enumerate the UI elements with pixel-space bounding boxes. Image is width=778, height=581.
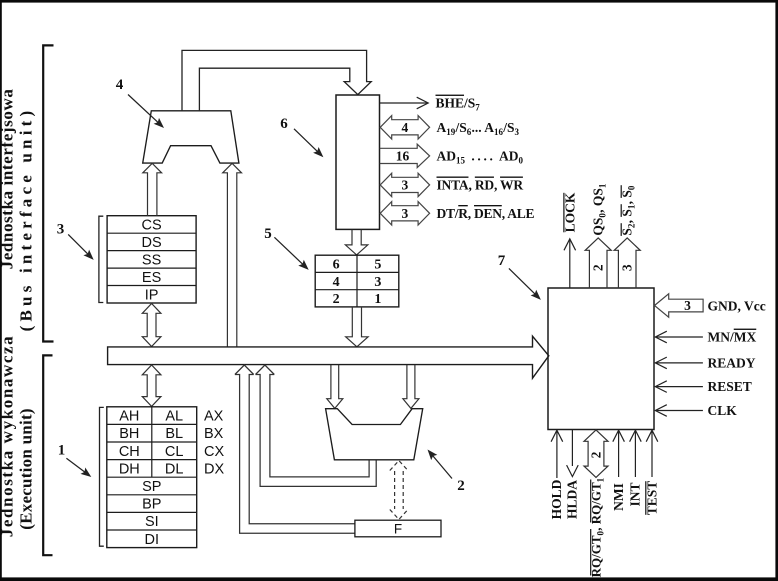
svg-text:IP: IP <box>145 287 159 303</box>
svg-text:INT: INT <box>628 482 643 506</box>
leader arrow for label 5 <box>274 237 304 266</box>
svg-text:BP: BP <box>142 497 161 513</box>
svg-text:6: 6 <box>280 116 288 132</box>
svg-text:NMI: NMI <box>611 483 626 511</box>
svg-text:4: 4 <box>333 275 340 290</box>
svg-text:HLDA: HLDA <box>565 480 580 519</box>
svg-text:CL: CL <box>165 444 184 460</box>
svg-text:6: 6 <box>333 258 340 273</box>
svg-text:CX: CX <box>204 444 224 460</box>
svg-text:SP: SP <box>142 479 161 495</box>
svg-text:DH: DH <box>119 461 140 477</box>
leader arrow for label 6 <box>294 129 319 153</box>
svg-text:Jednostka interfejsowa: Jednostka interfejsowa <box>0 89 17 270</box>
bracket bus-interface-unit section <box>43 45 53 341</box>
bracket register file <box>100 407 104 546</box>
instruction queue table <box>315 255 399 307</box>
svg-text:2: 2 <box>457 478 465 494</box>
signal INT line with arrow into block <box>634 432 636 478</box>
bus wire queue to main bus (hollow arrow down) <box>346 307 368 347</box>
leader arrow for label 1 <box>66 458 86 473</box>
svg-text:16: 16 <box>396 149 410 164</box>
svg-text:READY: READY <box>708 356 756 371</box>
signal BHE/S7 line with arrow <box>380 102 427 104</box>
svg-text:5: 5 <box>264 226 272 242</box>
svg-text:DI: DI <box>145 532 160 548</box>
svg-text:RESET: RESET <box>708 379 752 394</box>
signal NMI line with arrow into block <box>618 432 620 478</box>
svg-text:DS: DS <box>142 235 162 251</box>
svg-text:BHE/S7: BHE/S7 <box>436 96 481 113</box>
svg-text:AL: AL <box>165 409 183 425</box>
bus wire main bus to ALU left input (hollow arrow down) <box>327 365 343 409</box>
signal HOLD line with arrow into block <box>556 432 558 479</box>
bus arrow GND Vcc (3 lines, into block) <box>655 294 704 317</box>
signal TEST line with arrow into block <box>651 432 653 478</box>
ALU block 2 (trapezoid) <box>326 409 423 460</box>
svg-text:4: 4 <box>402 120 409 135</box>
bus arrow AD15..AD0 (16 lines, single head) <box>380 144 430 167</box>
bus arrow DT/R DEN ALE (3 lines) <box>380 202 429 225</box>
svg-text:7: 7 <box>498 253 506 269</box>
svg-text:ES: ES <box>142 270 161 286</box>
svg-text:5: 5 <box>374 258 381 273</box>
svg-text:GND, Vcc: GND, Vcc <box>708 298 766 313</box>
bus arrow QS0 QS1 (2 lines up) <box>585 238 611 288</box>
svg-text:2: 2 <box>591 264 606 271</box>
bus wire main bus down to ALU bottom (hollow, elbow) <box>256 365 377 486</box>
svg-text:LOCK: LOCK <box>562 192 577 232</box>
signal HLDA line with arrow out <box>571 430 573 466</box>
svg-text:SI: SI <box>145 514 159 530</box>
svg-text:DX: DX <box>204 461 224 477</box>
leader arrow for label 4 <box>128 95 160 125</box>
svg-text:Jednostka wykonawcza: Jednostka wykonawcza <box>0 335 17 538</box>
svg-text:3: 3 <box>620 264 635 271</box>
svg-text:CLK: CLK <box>708 403 738 418</box>
signal MN/MX line with arrow <box>657 336 703 338</box>
bus arrow INTA RD WR (3 lines) <box>380 173 429 196</box>
svg-text:DL: DL <box>165 461 184 477</box>
svg-text:1: 1 <box>58 443 66 459</box>
bus control logic block 6 <box>336 95 380 229</box>
svg-text:(Execution unit): (Execution unit) <box>17 408 36 530</box>
svg-text:3: 3 <box>374 275 381 290</box>
svg-text:BL: BL <box>165 426 183 442</box>
svg-text:3: 3 <box>402 206 409 221</box>
bus wire main bus down to flags F register (hollow, elbow) <box>235 365 355 533</box>
bus wire main bus to register file (double hollow arrow) <box>142 365 161 406</box>
signal CLK line with arrow <box>657 410 703 412</box>
bus wire main bus to ALU right input (hollow arrow down) <box>403 365 419 409</box>
bus arrow RQ/GT0 RQ/GT1 (2 lines, double) <box>584 430 608 477</box>
svg-text:SS: SS <box>142 252 161 268</box>
dashed bus ALU to flags register (double dashed arrow) <box>394 471 396 509</box>
svg-text:AX: AX <box>204 409 224 425</box>
svg-text:DT/R, DEN, ALE: DT/R, DEN, ALE <box>437 206 535 221</box>
flags register F <box>355 520 441 537</box>
svg-text:CS: CS <box>142 217 162 233</box>
svg-text:AD15 . . . . AD0: AD15 . . . . AD0 <box>437 149 524 166</box>
svg-text:(Bus interface unit): (Bus interface unit) <box>17 107 36 332</box>
adder block 4 (address summer trapezoid) <box>143 111 239 163</box>
control and timing block 7 <box>548 288 654 430</box>
leader arrow for label 7 <box>509 268 537 295</box>
bus wire block6 to queue (hollow arrow down) <box>345 230 367 255</box>
svg-text:1: 1 <box>374 292 381 307</box>
svg-text:AH: AH <box>119 409 139 425</box>
bus arrow S2 S1 S0 (3 lines up) <box>614 238 640 288</box>
signal RESET line with arrow <box>657 386 703 388</box>
bus arrow A19/S6..A16/S3 (4 lines) <box>380 116 429 139</box>
svg-text:4: 4 <box>116 77 124 93</box>
signal LOCK line with arrow <box>569 240 571 289</box>
svg-text:2: 2 <box>333 292 340 307</box>
svg-text:3: 3 <box>402 178 409 193</box>
svg-text:BX: BX <box>204 426 224 442</box>
bracket execution-unit section <box>43 355 52 555</box>
svg-text:INTA, RD, WR: INTA, RD, WR <box>437 178 524 193</box>
svg-text:BH: BH <box>119 426 139 442</box>
bus wire adder right input from internal bus (hollow arrow up, long) <box>223 163 242 347</box>
svg-text:TEST: TEST <box>644 481 659 516</box>
main internal bus (horizontal, arrow into control block) <box>108 336 549 378</box>
bus wire segment-registers to main bus (double hollow arrow) <box>142 304 161 347</box>
svg-text:2: 2 <box>588 451 603 458</box>
leader arrow for label 2 <box>431 454 452 479</box>
svg-text:3: 3 <box>57 222 65 238</box>
leader arrow for label 3 <box>68 234 89 255</box>
bus wire segment-registers to adder left input (hollow arrow up) <box>143 163 162 215</box>
signal READY line with arrow <box>657 362 703 364</box>
svg-text:CH: CH <box>119 444 140 460</box>
svg-text:HOLD: HOLD <box>549 479 564 519</box>
svg-text:3: 3 <box>684 298 691 313</box>
bus wire adder to instruction-stream block (hollow elbow bus with arrow) <box>182 50 371 110</box>
svg-text:F: F <box>394 521 402 536</box>
segment register file CS DS SS ES IP <box>107 216 196 303</box>
general register file AH..DI <box>107 407 197 548</box>
svg-text:MN/MX: MN/MX <box>708 330 757 345</box>
svg-text:QS0 , QS1: QS0 , QS1 <box>591 183 608 236</box>
bracket segment registers <box>99 216 103 302</box>
